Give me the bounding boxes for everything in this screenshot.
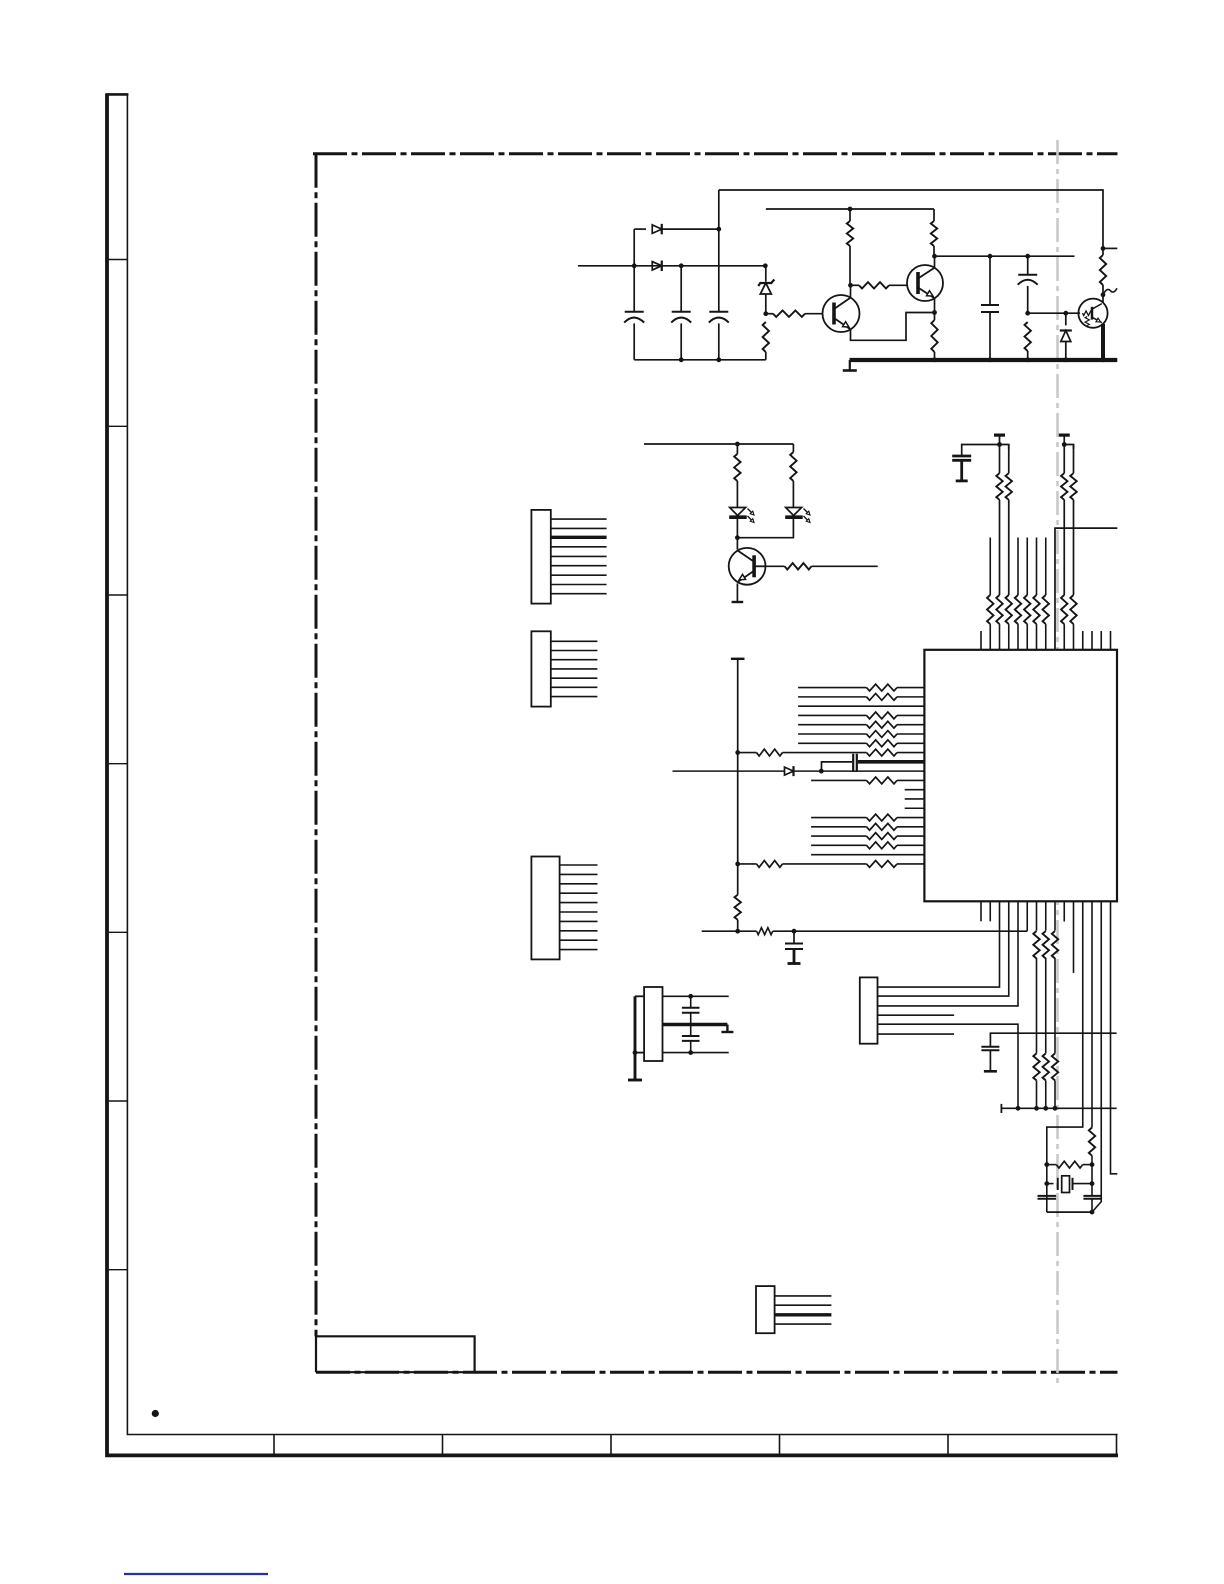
diode D2: [652, 262, 662, 271]
CN3 pin 5: [560, 902, 598, 904]
footer blue underline: [124, 1573, 268, 1575]
wire collector stub right: [1103, 247, 1117, 249]
resistor series top pin 10: [1061, 595, 1067, 624]
frame scale tick 3: [107, 594, 127, 596]
node C8: [792, 929, 797, 934]
wire second rail: [766, 208, 934, 210]
node bottom-C2: [679, 357, 684, 362]
resistor series top pin 6: [1024, 595, 1030, 624]
U1 left pin 10 with diode D6: [673, 770, 785, 772]
CN5 pin 1: [775, 1295, 832, 1297]
wire D1 branch vertical: [633, 229, 635, 266]
node power1: [997, 442, 1002, 447]
block border dash-dot bottom: [316, 1371, 1118, 1374]
CN5 pin 2: [775, 1304, 832, 1306]
frame scale tick 2: [107, 425, 127, 427]
U1 left pin 18: [811, 844, 866, 846]
resistor R19 (crystal feedback): [1047, 1164, 1057, 1166]
U1 left pin 11: [811, 779, 866, 781]
capacitor C2: [680, 266, 682, 312]
CN4 pin 6 stub: [878, 1033, 955, 1035]
wire crystal ground bottom: [1047, 1211, 1092, 1213]
node LED cathode junction: [735, 535, 740, 540]
X1 bottom pin: [663, 1052, 729, 1054]
U1 left pin 13: [905, 798, 925, 800]
block border dash-dot left: [315, 154, 318, 1337]
U1 top pin 2 series line: [989, 538, 991, 596]
CN5 pin 3: [775, 1313, 832, 1316]
resistor R11 (Q4 base): [785, 563, 812, 569]
VCC bus vertical: [731, 658, 745, 660]
resistor R9 (LED1): [736, 444, 738, 454]
node bus D3: [1063, 357, 1068, 362]
U1 left pin 17: [811, 835, 866, 837]
node crystal right top: [1090, 1162, 1095, 1167]
wire Q1 collector: [850, 285, 852, 297]
bottom frame divider 4: [779, 1435, 781, 1456]
bottom frame divider 2: [442, 1435, 444, 1456]
resistor series top pin 2: [987, 595, 993, 624]
ceramic resonator X1: [644, 987, 662, 1061]
U1 left pin 20 from VCC bus: [735, 862, 740, 867]
CN5 pin 4: [775, 1323, 832, 1325]
VCC symbol power2: [1059, 434, 1070, 437]
U1 left pin 9 bold with series cap C7: [822, 762, 853, 771]
CN3 pin 3: [560, 883, 598, 885]
transistor Q1: [823, 295, 860, 332]
LED D5: [786, 508, 802, 516]
U1 bottom pin 11 line: [1073, 901, 1075, 973]
wire Q2 emitter: [934, 298, 936, 312]
node crystal right mid: [1090, 1181, 1095, 1186]
node zener/base: [763, 311, 768, 316]
CN1 pin 7: [551, 574, 607, 576]
X1 top pin: [663, 995, 729, 997]
CN2 pin 3: [551, 659, 598, 661]
CN1 pin 9: [551, 593, 607, 595]
U1 left pin 5: [798, 724, 866, 726]
wire Q3 collector column: [1102, 248, 1104, 255]
U1 bottom pin 3 to CN4 pin1: [878, 901, 1000, 987]
capacitor C1: [633, 266, 635, 312]
bus wire lower: [1001, 1107, 1116, 1109]
CN1 pin 1: [551, 518, 607, 520]
U1 bottom pin 13 with resistor R18: [1091, 901, 1093, 1127]
resistor R6 (Q2 emitter): [931, 320, 937, 352]
node crystal bottom: [1090, 1210, 1095, 1215]
U1 left pin 16: [811, 826, 866, 828]
U1 top pin 15 stub: [1110, 631, 1112, 650]
U1 bottom pin 4 to CN4 pin2: [878, 901, 1009, 996]
CN3 pin 9: [560, 939, 598, 941]
node Q3 collector rail: [1101, 246, 1106, 251]
U1 left pin 4: [798, 714, 866, 716]
transistor Q3 digital: [1078, 299, 1107, 328]
frame scale tick 7: [107, 1269, 127, 1271]
frame top cap tick: [106, 93, 129, 96]
U1 bottom pin 9 with resistors: [1054, 901, 1056, 930]
resistor R5 (rail to Q2): [933, 209, 935, 221]
bottom frame divider 6: [1116, 1435, 1118, 1456]
U1 bottom pin 5 to CN4 pin3: [878, 901, 1019, 1006]
CN2 pin 1: [551, 640, 598, 642]
node Q2 emitter: [932, 310, 937, 315]
ground symbol power bus: [849, 360, 851, 371]
node bus R7: [1025, 357, 1030, 362]
node bus Q3e: [1101, 357, 1106, 362]
CN3 pin 8: [560, 930, 598, 932]
U1 left pin 1: [798, 687, 866, 689]
X1 ground wrap wire: [635, 995, 644, 997]
CN3 pin 7: [560, 920, 598, 922]
bullet mark: [152, 1410, 159, 1417]
U1 bottom pin 1 stub: [980, 901, 982, 921]
U1 bottom pin 10 stub: [1063, 901, 1065, 921]
node bus Q2R: [932, 357, 937, 362]
resistor series top pin 11: [1070, 595, 1076, 624]
frame scale tick 1: [107, 259, 127, 261]
VCC symbol power1: [994, 434, 1005, 437]
connector CN1: [531, 510, 550, 604]
crystal Y1: [1047, 1183, 1054, 1185]
wire resonator row: [702, 930, 757, 932]
U1 left pin 8 from VCC bus: [735, 750, 740, 755]
fold line gray dash-dot: [1056, 140, 1059, 1384]
resistor R17 (osc row): [757, 928, 773, 935]
node crystal left bottom: [1044, 1181, 1049, 1186]
U1 top pin 6 series line: [1026, 538, 1028, 596]
wire Q4 base resistor: [754, 565, 766, 567]
CN2 pin 5: [551, 677, 598, 679]
title box bottom-left: [316, 1336, 475, 1372]
CN1 pin 6: [551, 565, 607, 567]
capacitor C5: [1027, 256, 1029, 275]
node crystal left top: [1044, 1162, 1049, 1167]
bottom frame divider 1: [273, 1435, 275, 1456]
page frame outer left+bottom rule: [107, 94, 1118, 1456]
bottom frame divider 5: [947, 1435, 949, 1456]
transistor Q4 (LED driver): [736, 538, 738, 550]
U1 bottom pin 8 with resistors: [1045, 901, 1047, 930]
node bottom-C3: [716, 357, 721, 362]
capacitor C11 (bus): [990, 1033, 1116, 1047]
U1 left pin 6: [798, 733, 866, 735]
connector CN5: [756, 1286, 775, 1333]
wire Q1 collector to rail resistor: [849, 246, 851, 285]
CN3 pin 1: [560, 864, 598, 866]
diode D1: [634, 228, 646, 230]
resistor R4 (Q1-Q2 coupling): [851, 284, 860, 286]
node bus CN4pin5: [1016, 1106, 1021, 1111]
IC U1 body: [924, 650, 1117, 902]
wire base Q3: [1028, 312, 1080, 314]
U1 bottom pin 12 to crystal left: [1047, 901, 1083, 1212]
CN3 pin 2: [560, 873, 598, 875]
wire continuation squiggle: [1103, 288, 1117, 295]
node main-C2 branch: [679, 263, 684, 268]
capacitor C4: [989, 256, 991, 305]
CN1 pin 3: [551, 536, 607, 539]
capacitor C8: [793, 931, 795, 943]
wire Vreg output: [935, 255, 1075, 257]
frame scale tick 5: [107, 931, 127, 933]
resistor R10 (LED2): [792, 444, 794, 452]
U1 bottom pin 14 diagonal to crystal: [1092, 901, 1101, 1212]
ground Q4: [732, 601, 744, 603]
resistor series top pin 4: [1006, 595, 1012, 624]
connector CN4: [860, 977, 878, 1043]
U1 bottom pin 6 (osc in): [1026, 901, 1028, 931]
transistor Q2: [907, 265, 943, 301]
U1 top pin 13 stub: [1091, 631, 1093, 650]
U1 top pin 8 series line: [1045, 538, 1047, 596]
resistor series top pin 3: [996, 595, 1002, 624]
page frame inner left+bottom rule: [127, 94, 1117, 1435]
U1 top pin 1 stub: [980, 631, 982, 650]
ground bus power section: [850, 358, 1118, 362]
U1 bottom pin 2 stub: [989, 901, 991, 921]
LED D4: [730, 508, 746, 516]
CN1 pin 4: [551, 546, 607, 548]
resistor R15 pullup: [1073, 445, 1075, 474]
resistor R3 (rail to Q1): [847, 221, 853, 246]
bus left end tick: [1000, 1104, 1002, 1113]
U1 top pin 5 series line: [1017, 538, 1019, 596]
wire power2 to pullup pair: [1064, 445, 1073, 450]
CN1 pin 8: [551, 584, 607, 586]
wire ac input: [578, 265, 766, 267]
CN1 pin 2: [551, 527, 607, 529]
node main-zener branch: [763, 263, 768, 268]
CN4 pin 5 to bus: [878, 1024, 1019, 1108]
U1 bottom pin 7 with resistors: [1036, 901, 1038, 930]
capacitor C3: [718, 190, 720, 312]
capacitor C6 (power1 decoupling): [962, 445, 1000, 457]
capacitor C13 (crystal right): [1091, 1195, 1093, 1197]
CN2 pin 7: [551, 696, 598, 698]
CN2 pin 6: [551, 686, 598, 688]
CN2 pin 2: [551, 650, 598, 652]
resistor series top pin 5: [1015, 595, 1021, 624]
node Q2 collector: [932, 254, 937, 259]
node D1 to rail column: [716, 227, 721, 232]
U1 bottom pin 15 exit right: [1111, 901, 1118, 1174]
wire LED1 cathode: [736, 517, 738, 538]
U1 left pin 3: [798, 705, 924, 707]
CN3 pin 10: [560, 949, 598, 951]
wire LED supply: [644, 443, 793, 445]
U1 left pin 14: [905, 807, 925, 809]
wire negative rail bottom: [634, 359, 766, 361]
U1 top pin 12 stub: [1082, 631, 1084, 650]
diode D3: [1065, 313, 1067, 325]
resistor R7 (C5 node): [1025, 322, 1031, 351]
CN2 pin 4: [551, 668, 598, 670]
node VCC bus / osc wire: [735, 929, 740, 934]
node main-D1 branch: [632, 263, 637, 268]
U1 left pin 12: [905, 789, 925, 791]
U1 top pin 7 series line: [1036, 538, 1038, 596]
U1 left pin 7: [798, 742, 866, 744]
resistor R1 (zener bottom): [763, 322, 769, 352]
wire Q4 base line: [812, 565, 878, 567]
node second rail / R col: [848, 207, 853, 212]
bottom frame divider 3: [610, 1435, 612, 1456]
CN4 pin 4 stub: [878, 1014, 955, 1016]
wire Q1 emitter step: [851, 313, 935, 341]
resistor R2 (base Q1): [766, 313, 773, 315]
node Q3 squiggle: [1101, 292, 1106, 297]
CN3 pin 4: [560, 892, 598, 894]
resistor series top pin 7: [1033, 595, 1039, 624]
capacitor C9 (resonator top): [690, 996, 692, 1008]
resistor R12 pullup: [999, 445, 1001, 474]
node out-C5: [1025, 254, 1030, 259]
node LED supply: [735, 442, 740, 447]
wire Q3 emitter bold: [1101, 324, 1105, 360]
resistor R8 (Q3 collector): [1100, 255, 1106, 285]
block border dash-dot top: [313, 152, 1118, 155]
U1 top pin 9 wire to right: [1055, 528, 1117, 650]
frame scale tick 6: [107, 1100, 127, 1102]
node diode D3: [1063, 311, 1068, 316]
CN3 pin 6: [560, 911, 598, 913]
wire power1 to pullup pair: [1000, 445, 1009, 450]
resistor R16 (VCC bus bottom): [735, 895, 741, 920]
node C5/base Q3: [1025, 311, 1030, 316]
capacitor C10 (resonator bottom): [690, 1025, 692, 1037]
U1 left pin 15: [811, 817, 866, 819]
node power2: [1062, 442, 1067, 447]
wire LED2 cathode step: [737, 517, 793, 538]
resistor R13 pullup: [1008, 445, 1010, 474]
X1 mid pin bold to ground: [663, 1023, 728, 1026]
U1 left pin 2: [798, 696, 866, 698]
wire Q2 collector: [934, 256, 936, 268]
node Q1 collector: [848, 283, 853, 288]
resistor R14 pullup: [1063, 445, 1065, 474]
capacitor C12 (crystal left): [1038, 1195, 1057, 1197]
U1 top pin 14 stub: [1100, 631, 1102, 650]
resistor series top pin 8: [1043, 595, 1049, 624]
node C4 ground: [988, 357, 993, 362]
node out-C4: [988, 254, 993, 259]
wire Q4 emitter: [736, 584, 738, 602]
connector CN3: [531, 857, 559, 960]
zener diode ZD1: [765, 266, 767, 282]
connector CN2: [531, 631, 550, 706]
wire top rail: [719, 190, 1103, 248]
U1 left pin 19: [811, 854, 924, 856]
frame scale tick 4: [107, 763, 127, 765]
CN1 pin 5: [551, 555, 607, 557]
